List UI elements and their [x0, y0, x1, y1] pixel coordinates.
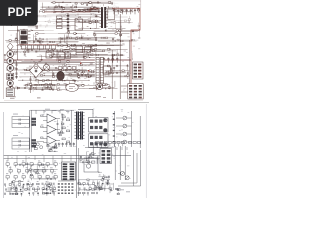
- svg-text:PDF: PDF: [8, 5, 32, 19]
